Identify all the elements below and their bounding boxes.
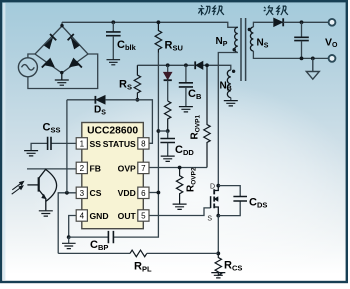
svg-text:8: 8 [141, 140, 146, 149]
resistor R_SU [155, 22, 162, 52]
optocoupler U2 phototransistor [27, 169, 56, 211]
svg-text:SS: SS [90, 139, 102, 149]
svg-text:3: 3 [80, 189, 85, 198]
svg-text:5: 5 [141, 212, 146, 221]
node: bias rail junction zener branch [166, 63, 170, 67]
node: GND junction [67, 235, 71, 239]
resistor R_PL [130, 250, 147, 257]
svg-text:OUT: OUT [118, 211, 137, 221]
capacitor C_blk [106, 22, 121, 59]
wire: R_PL row [58, 252, 218, 254]
pin 5 OUT [138, 210, 149, 221]
wire: R_SU down to VDD node (crosses bias rail) [157, 53, 159, 132]
winding N_P primary [235, 27, 238, 52]
ground below C_DD [161, 156, 175, 161]
ground below C_SS [24, 151, 38, 156]
polarity dot N_B [232, 70, 235, 73]
capacitor C_BP [108, 231, 113, 243]
wire: N_P bottom to MOSFET drain vertical [218, 53, 238, 186]
node: rail junction at R_SU [157, 20, 161, 24]
node: VDD pin junction [157, 191, 161, 195]
capacitor C_B [179, 65, 193, 106]
output rectifier diode (cathode right) [274, 18, 284, 27]
node: VDD link junction left [157, 129, 161, 133]
wire: VDD link row [158, 130, 167, 132]
pin 6 VDD [138, 187, 149, 198]
node: C_O bottom junction [300, 57, 304, 61]
capacitor C_DS branch [218, 186, 247, 216]
ground below R_OVP2 [173, 204, 187, 209]
wire: source down to R_CS row [217, 216, 219, 254]
node: OVP divider junction [178, 166, 182, 170]
resistor R_CS [215, 253, 221, 275]
wire: C_BP row from GND node to VDD drop [69, 131, 159, 237]
ground below N_B [224, 98, 238, 106]
svg-text:STATUS: STATUS [103, 139, 136, 149]
pin 1 SS [76, 138, 87, 149]
terminal Vo+ [329, 19, 336, 26]
wire: D_S row from CS riser to STATUS drop [67, 100, 152, 144]
capacitor C_DD [160, 131, 175, 156]
svg-text:6: 6 [141, 189, 146, 198]
wire: CS row pin3 with riser and drop [58, 193, 76, 254]
svg-text:4: 4 [80, 212, 85, 221]
node: drain junction [216, 184, 220, 188]
wire: OVP row pin7 to R_OVP1 bottom [149, 167, 207, 169]
bridge diode D3 lower-left [42, 58, 54, 67]
node: CS junction with D_S riser [65, 191, 69, 195]
svg-text:7: 7 [141, 164, 146, 173]
wire: riser from CS node up to D_S row [66, 100, 68, 193]
transistor Q1 MOSFET [211, 186, 219, 216]
node: source junction [216, 214, 220, 218]
ground below C_blk [107, 60, 121, 65]
light arrows into optocoupler [12, 182, 24, 195]
node: rail junction at C_blk [111, 20, 115, 24]
pin 2 FB [76, 162, 87, 173]
resistor R_OVP1 [204, 65, 210, 167]
winding N_S secondary [250, 27, 253, 51]
svg-text:CS: CS [90, 188, 102, 198]
node: output ground junction [311, 57, 315, 61]
svg-text:S: S [207, 216, 212, 223]
pin 8 STATUS [138, 138, 149, 149]
label 次级 (secondary) [264, 5, 288, 15]
svg-text:FB: FB [90, 163, 101, 173]
chassis ground triangle [306, 58, 319, 79]
ground below R_CS [211, 273, 225, 278]
AC source [18, 58, 37, 77]
svg-text:1: 1 [80, 140, 85, 149]
wire: output positive rail [283, 21, 328, 23]
svg-text:VDD: VDD [118, 188, 136, 198]
bridge diode D1 upper-left [45, 34, 57, 49]
node: bridge top [60, 24, 63, 27]
resistor R_OVP2 [176, 168, 182, 204]
capacitor C_SS [48, 137, 51, 150]
ground below bridge [55, 73, 69, 85]
node: C_O top junction [300, 20, 304, 24]
ground below C_B [179, 107, 193, 112]
svg-text:OVP: OVP [118, 163, 136, 173]
wire: main top rail from bridge to transformer primary [62, 22, 238, 27]
wire: N_S top to output diode [253, 22, 273, 27]
node: bridge bottom [60, 71, 63, 74]
node: bias rail junction R_OVP1 [205, 63, 209, 67]
transformer T1 core [241, 18, 246, 81]
wire: bias rail from R_S top to N_B junction [137, 64, 218, 66]
diode D_B in bias rail (cathode left) [195, 61, 203, 69]
terminal Vo- [329, 55, 336, 62]
svg-text:UCC28600: UCC28600 [87, 126, 138, 137]
op IC U1 UCC28600 body [82, 123, 144, 229]
bridge diode D4 lower-right [70, 58, 82, 67]
polarity dot N_P [233, 48, 236, 51]
left inner highlight band [3, 3, 6, 280]
svg-text:GND: GND [90, 211, 109, 221]
wire: FB row pin2 to optocoupler collector [27, 168, 76, 170]
node: R_S bottom on D_S row [136, 98, 140, 102]
diode D_S (cathode left) [95, 95, 105, 104]
bridge diode D2 upper-right [68, 34, 80, 49]
capacitor C_O [294, 22, 309, 58]
node: VDD link junction right [166, 129, 170, 133]
wire: SS row pin1 to C_SS [31, 143, 76, 150]
resistor below zener [165, 101, 171, 131]
wire: N_B top to bias rail [218, 65, 231, 70]
ground below optocoupler emitter [39, 211, 53, 216]
svg-text:2: 2 [80, 164, 85, 173]
wire: VDD row pin6 to VDD rail [149, 192, 158, 194]
wire: AC return loop bottom [28, 54, 98, 89]
winding N_B bias [227, 70, 230, 98]
svg-text:D: D [210, 183, 215, 190]
label 初级 (primary) [198, 5, 224, 15]
polarity dot N_S [248, 28, 251, 31]
pin 4 GND [76, 210, 87, 221]
node: C_B junction on bias rail [184, 63, 188, 67]
wire: OUT row pin5 to MOSFET gate [149, 208, 211, 216]
pin 3 CS [76, 187, 87, 198]
wire: N_S bottom to output return rail [253, 51, 328, 58]
wire: AC source top lead [28, 54, 35, 58]
node: R_CS row junction [216, 252, 220, 256]
ground below GND node [62, 237, 76, 249]
pin 7 OVP [138, 162, 149, 173]
bridge rectifier diamond outline [35, 22, 88, 73]
wire: GND row pin4 to ground and C_BP row [69, 216, 77, 238]
zener diode D_Z (pointing down) [163, 65, 172, 101]
resistor R_S [134, 65, 140, 100]
